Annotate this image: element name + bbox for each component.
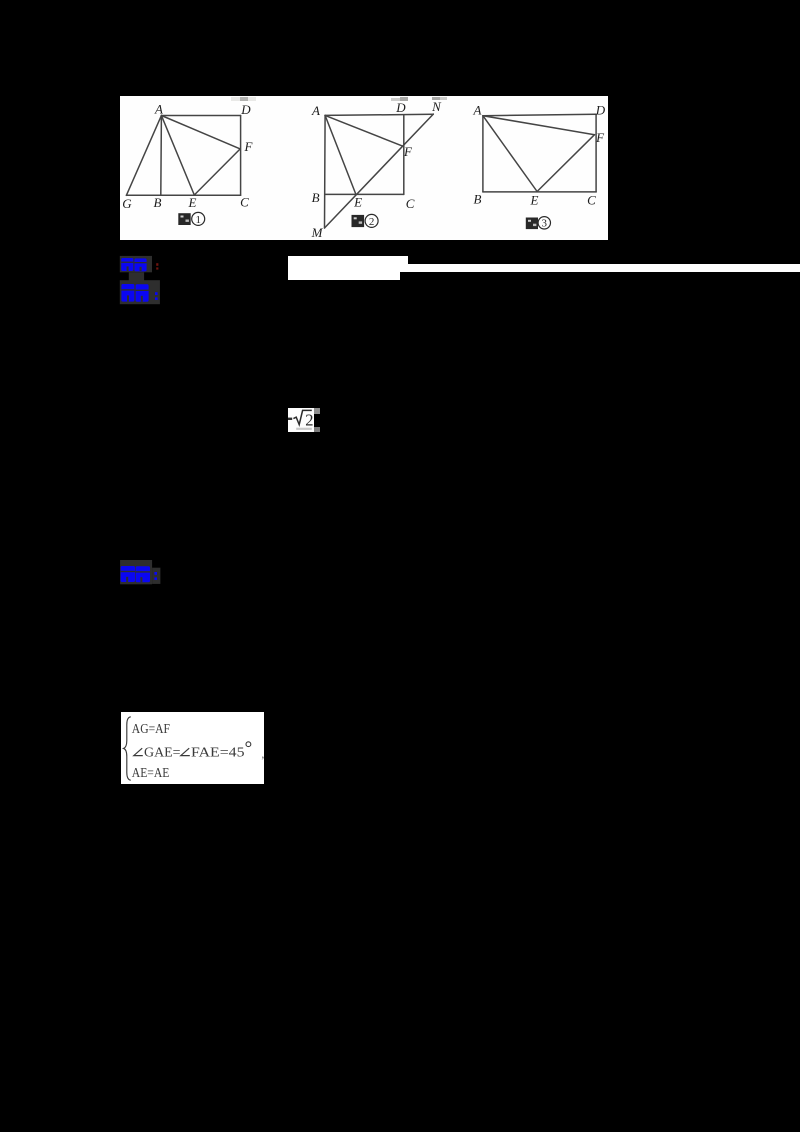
svg-text:AE=AE: AE=AE [131, 766, 169, 781]
fig1 square side A-D [161, 114, 240, 116]
gray artifact patch above fig2 D [391, 98, 408, 101]
svg-text:B: B [311, 190, 319, 205]
minus dash at left edge [288, 418, 292, 420]
fig3 rect side A-B [481, 115, 483, 191]
svg-text:A: A [154, 101, 163, 116]
system brace [123, 717, 130, 780]
svg-text:D: D [395, 100, 406, 115]
svg-text:1: 1 [195, 213, 201, 225]
fig2 segment A-F [325, 115, 404, 146]
gray nubs right of sqrt box [314, 408, 320, 414]
radical sign [293, 410, 311, 424]
svg-text:GAE=: GAE= [144, 745, 181, 760]
svg-text:2: 2 [305, 410, 313, 429]
angle symbol 2 [180, 748, 189, 755]
white answer box (top) [288, 256, 408, 265]
sqrt(2) white box [288, 408, 315, 432]
blue colon [155, 292, 158, 295]
svg-text:3: 3 [541, 217, 547, 229]
fig3 rect side B-C [482, 191, 595, 193]
blue colon [154, 572, 157, 575]
svg-text:B: B [153, 194, 161, 209]
fig2 caption 图(2) [351, 214, 378, 227]
fig3 segment E-F [537, 134, 594, 191]
svg-text:F: F [243, 139, 253, 154]
svg-text:E: E [187, 194, 196, 209]
svg-text:AG=AF: AG=AF [131, 722, 169, 737]
svg-text:C: C [587, 192, 596, 207]
svg-text:2: 2 [368, 216, 374, 228]
white horizontal rule to page edge [288, 264, 800, 272]
svg-text:A: A [472, 102, 481, 117]
svg-text:D: D [594, 102, 605, 117]
blue label 分析 block [118, 270, 168, 307]
light underline [296, 428, 312, 430]
blue label 考点 block [118, 254, 166, 276]
svg-text:,: , [261, 746, 264, 760]
fig1 caption 图(1) [178, 212, 204, 225]
svg-text:F: F [403, 144, 413, 159]
svg-text:C: C [240, 194, 249, 209]
fig3 segment A-E [482, 115, 536, 191]
fig2 square side B-C [325, 193, 404, 195]
svg-text:F: F [595, 130, 605, 145]
fig3 rect side D-C [595, 114, 597, 192]
fig1 segment A-G [126, 115, 161, 195]
figures svg [120, 96, 608, 241]
fig3 segment A-F [482, 115, 594, 134]
svg-text:FAE=45: FAE=45 [191, 745, 245, 760]
fig1 segment A-F [161, 115, 240, 148]
fig1 segment E-F [194, 149, 240, 195]
fig3 caption 图(3) [525, 216, 550, 229]
svg-text:N: N [431, 99, 442, 114]
angle symbol 1 [133, 748, 142, 755]
svg-text:A: A [311, 103, 320, 118]
fig1 square side D-C [239, 115, 241, 195]
fig2 top line A-D-N [325, 114, 433, 115]
svg-text:E: E [353, 194, 362, 209]
blue label 解答 block [118, 558, 166, 588]
gray artifact patch above fig2 N [432, 97, 440, 101]
fig1 base line G-B-C [126, 194, 240, 196]
fig1 square side A-B [159, 115, 162, 195]
svg-text:B: B [473, 191, 481, 206]
fig2 segment A-E [325, 115, 356, 194]
fig2 square side D-C [402, 115, 404, 194]
fig1 segment A-E [161, 115, 194, 194]
equation system white box [121, 712, 265, 785]
fig2 left line A-B-M [323, 115, 326, 228]
dark red colon [156, 263, 158, 266]
fig2 diagonal M-E-F-N [324, 114, 433, 228]
white figures band [120, 96, 608, 240]
degree mark [246, 742, 251, 747]
svg-text:G: G [122, 196, 132, 211]
svg-text:D: D [240, 101, 251, 116]
svg-text:M: M [310, 225, 323, 240]
gray artifact patch above fig1 D [231, 97, 256, 101]
white answer box (bottom) [288, 272, 400, 281]
svg-text:E: E [529, 192, 538, 207]
fig3 rect side A-D [482, 114, 595, 115]
svg-text:C: C [405, 196, 414, 211]
